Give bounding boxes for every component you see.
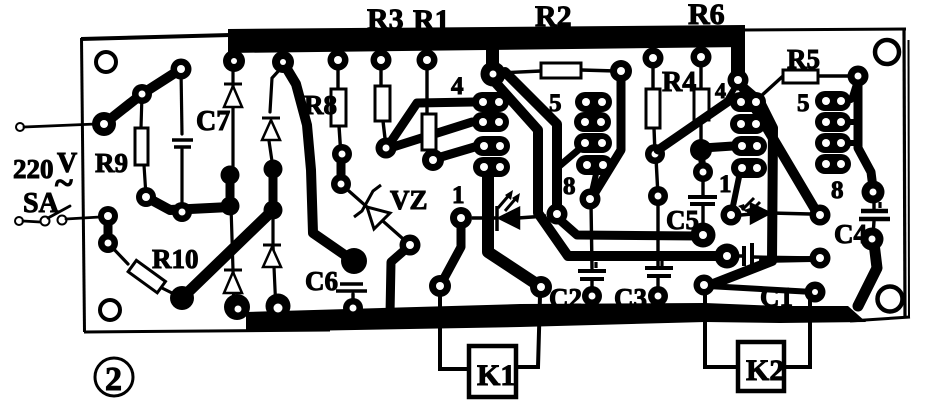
pad C5 top — [693, 162, 713, 182]
figure number circle — [95, 358, 133, 396]
pad AC1 — [92, 112, 116, 136]
wire lead R1 top — [425, 60, 428, 114]
pad R5 right — [848, 66, 869, 87]
pad top — [171, 59, 192, 80]
wire trace diagonal to R10 pad — [182, 210, 273, 298]
resistor R4 body — [646, 89, 660, 128]
mounting hole top-left — [96, 52, 116, 72]
svg-text:C6: C6 — [305, 266, 338, 296]
board outline right edge inner line — [908, 40, 911, 317]
pad C3 bottom — [648, 286, 668, 306]
svg-text:8: 8 — [831, 177, 844, 204]
pad K2 left — [694, 275, 715, 296]
LED2 arrows — [742, 198, 760, 214]
wire lead C6 bottom — [351, 294, 354, 306]
wire trace right IC row3 stub — [849, 140, 858, 146]
LED2 optocoupler symbol — [738, 198, 810, 226]
wire trace R6 blob to pad703 — [701, 151, 703, 171]
pad R8 top — [328, 50, 349, 71]
pad mid — [132, 84, 152, 104]
wire lead R6 bottom — [699, 120, 702, 148]
pad R8 bottom lower — [331, 174, 351, 194]
resistor R1 body — [422, 114, 436, 150]
wire trace R8 pads vertical — [337, 156, 346, 184]
wire lead R5 left — [760, 76, 783, 97]
wire SA to board — [66, 217, 100, 219]
board outline left edge — [82, 38, 85, 332]
wire trace R1 pad to row3 — [434, 146, 478, 159]
wire lead pad181 to C7cap — [181, 69, 182, 134]
diode D3 col1 lower — [224, 269, 242, 272]
wire lead C4 top — [872, 197, 875, 209]
pad pin8 left IC — [580, 189, 601, 210]
wire trace zener pad to C6 vertical — [390, 248, 407, 314]
pad R1 top — [417, 50, 438, 71]
resistor R9 body — [135, 128, 148, 165]
wire trace right IC pin4 stub — [728, 84, 737, 99]
svg-text:R5: R5 — [787, 44, 820, 74]
svg-text:R2: R2 — [535, 0, 572, 33]
wire trace C4 bottom to band — [858, 243, 877, 306]
wire trace SA pads vertical — [104, 216, 113, 243]
pad SA2 — [98, 233, 118, 253]
pad SA1 — [98, 206, 118, 226]
wire trace AC1 pad to top — [104, 69, 181, 124]
capacitor C3 plates — [645, 266, 673, 270]
svg-text:4: 4 — [715, 78, 726, 103]
resistor R3 body — [375, 86, 390, 121]
svg-text:R4: R4 — [662, 67, 696, 98]
capacitor C4 plates — [861, 209, 888, 214]
wire K2 lead right — [786, 300, 810, 367]
pad C3 top — [648, 186, 668, 206]
pad R2 left — [481, 62, 506, 87]
IC2 right column pin ovals — [815, 91, 851, 174]
wire lead C1 left — [733, 254, 742, 257]
terminal circle AC top — [16, 123, 24, 131]
capacitor C5 plates — [688, 195, 717, 199]
resistor R5 body — [783, 70, 818, 83]
LED1 cathode bar — [495, 206, 499, 231]
wire lead R3 top — [379, 60, 382, 86]
LED1 arrows — [498, 194, 517, 211]
svg-text:R1: R1 — [413, 4, 450, 37]
pad C6 blob — [341, 248, 367, 274]
wire lead R4 top — [651, 58, 654, 89]
svg-text:C1: C1 — [760, 282, 793, 312]
pad R4 mid — [645, 144, 665, 164]
pad LED2 left — [721, 205, 742, 226]
pad C6 bottom — [343, 298, 363, 318]
resistor R8 body — [331, 89, 346, 126]
mounting hole bottom-right — [878, 287, 903, 312]
board outline right edge — [904, 29, 905, 318]
pad R2 right — [610, 60, 632, 82]
wire lead C2 vertical — [591, 203, 592, 268]
mounting hole top-right — [875, 40, 899, 64]
board outline top edge right segment — [742, 29, 906, 30]
svg-text:220: 220 — [13, 154, 54, 184]
wire lead C1 right — [753, 257, 815, 258]
svg-text:8: 8 — [563, 173, 576, 200]
pad LED1 left — [450, 207, 472, 229]
LED1 triangle — [499, 208, 519, 228]
svg-text:K2: K2 — [746, 354, 784, 387]
pad C4 bottom — [861, 228, 884, 251]
pad diode col1 lower — [221, 197, 240, 216]
switch SA pivot circle — [41, 217, 50, 226]
svg-text:R8: R8 — [304, 90, 337, 120]
pad R3 top — [371, 50, 392, 71]
LED1 optocoupler symbol — [472, 190, 546, 231]
pad band 234 — [223, 50, 245, 72]
wire lead diode2 chain bottom — [273, 210, 276, 311]
pad LED2 right — [810, 205, 831, 226]
svg-text:R9: R9 — [95, 148, 128, 178]
wire trace pad621 down diagonal to pad590 — [594, 79, 621, 194]
svg-text:5: 5 — [549, 90, 562, 117]
svg-text:2: 2 — [105, 361, 122, 398]
svg-text:C3: C3 — [614, 283, 647, 313]
zener VZ lead — [341, 184, 410, 245]
wire trace twin diagonal A from pad493 — [495, 82, 724, 256]
wire trace R9-bottom to diode column — [146, 197, 230, 210]
wire trace horizontal to pad820 bottom — [762, 259, 812, 260]
resistor R10 body — [128, 260, 165, 292]
wire trace band corner to vertical 771 — [708, 84, 773, 286]
wire lead C7cap to pad182 — [180, 149, 183, 210]
wire lead R4pads vertical — [656, 158, 658, 196]
switch SA terminal circle right — [58, 216, 67, 225]
neck band corner pad — [731, 40, 745, 76]
wire K1 lead right — [518, 296, 540, 367]
wire AC input top — [24, 124, 96, 127]
pad K2 right — [805, 282, 826, 303]
capacitor C3 plus tick — [660, 259, 663, 266]
wire trace row4 stub to pad590 — [591, 174, 596, 196]
wire trace row3 to vertical — [557, 146, 583, 168]
svg-text:1: 1 — [719, 171, 732, 198]
wire lead diode1 chain — [231, 70, 234, 175]
wire K2 lead left — [705, 294, 736, 367]
switch SA terminal circle left — [15, 217, 23, 225]
wire lead R2 left — [498, 71, 541, 73]
wire lead R4 bottom — [654, 128, 655, 154]
svg-text:R6: R6 — [688, 0, 725, 31]
wire lead R9 top — [141, 94, 142, 128]
pad C5 bottom — [691, 223, 716, 248]
bottom ground trace band — [246, 303, 866, 332]
wire trace R1 row2 horizontal — [390, 122, 472, 148]
LED2 triangle — [751, 204, 770, 223]
pad K1 left — [429, 275, 451, 297]
neck R2 left pad — [486, 46, 499, 68]
pad R9 bottom — [136, 187, 156, 207]
wire lead R8 bottom — [339, 126, 341, 156]
board outline bottom edge left segment — [84, 330, 330, 332]
wire lead C3 bottom — [656, 278, 659, 295]
pad VZ bottom — [400, 235, 421, 256]
mounting hole bottom-left — [100, 300, 120, 320]
top ground trace band — [228, 25, 745, 53]
wire lead C4 bottom — [873, 221, 874, 236]
svg-text:VZ: VZ — [390, 185, 428, 215]
relay K2 box — [738, 342, 784, 391]
wire trace pin1 vertical to K1 right pad — [488, 176, 538, 285]
wire lead R9 bottom — [144, 165, 146, 196]
wire trace R3 bottom diagonal to pin4 — [388, 102, 474, 146]
pad R8 bottom upper — [332, 144, 352, 164]
wire lead R6 top — [699, 57, 702, 89]
svg-text:5: 5 — [797, 90, 810, 117]
pad R3 bottom — [376, 138, 397, 159]
pad LED1 right — [547, 204, 568, 225]
resistor R6 body — [694, 89, 709, 120]
pad R6 top — [691, 47, 712, 68]
board outline top edge left segment — [81, 35, 230, 39]
resistor R2 body — [541, 63, 581, 78]
capacitor C4 plus tick — [878, 202, 881, 208]
wire trace pad655 to IC2 pin4 overlay — [658, 101, 729, 150]
wire trace blob to right IC row3 — [703, 146, 733, 148]
pad band corner — [728, 70, 749, 91]
pad diode col1 bottom — [224, 294, 250, 320]
pad K1 right — [530, 276, 552, 298]
wire lead R1 bottom — [430, 150, 432, 159]
pad C4 top — [862, 181, 885, 204]
pad diode col2 bottom — [266, 294, 291, 319]
diode D2 col2 upper — [262, 117, 280, 120]
capacitor near R9 plates — [172, 138, 193, 142]
pad band 283 — [272, 51, 294, 73]
IC1 left column pin ovals — [472, 92, 510, 177]
wire lead C5 top — [701, 175, 704, 195]
wire lead R2 right — [581, 70, 616, 71]
wire trace right IC row2 stub — [849, 119, 858, 125]
pad cap bottom — [172, 202, 192, 222]
wire trace right IC row4 to LED pad — [733, 177, 739, 206]
svg-text:K1: K1 — [477, 359, 515, 392]
wire lead C2 bottom — [590, 280, 593, 295]
wire trace bus1 from LED pad — [560, 220, 700, 236]
wire trace diode column2 pads — [269, 169, 278, 210]
pad R6 blob — [690, 139, 712, 161]
wire K1 lead left — [440, 296, 467, 369]
diode D1 col1 upper — [224, 83, 242, 86]
pad C2 bottom — [582, 286, 602, 306]
relay K1 box — [469, 346, 516, 397]
LED2 cathode bar — [768, 202, 772, 226]
svg-text:SA: SA — [23, 188, 60, 219]
svg-text:C7: C7 — [196, 106, 230, 137]
svg-text:1: 1 — [452, 182, 465, 209]
wire lead R10 top — [108, 243, 128, 264]
IC1 right column pin ovals — [574, 92, 613, 175]
wire lead diode2 mid — [268, 134, 273, 168]
pad R10 blob — [170, 286, 194, 310]
svg-text:R3: R3 — [367, 3, 404, 36]
pad diode col1 upper — [221, 166, 240, 185]
svg-text:4: 4 — [451, 73, 464, 100]
pad C1 right — [810, 248, 831, 269]
wire trace K2 pads link — [708, 286, 813, 292]
capacitor C1 plates — [742, 246, 746, 266]
diode D4 col2 lower — [263, 244, 281, 247]
IC2 left column pin ovals — [730, 92, 767, 178]
wire trace from top pad 283 down to C6 blob — [284, 64, 352, 260]
svg-text:C5: C5 — [666, 205, 699, 235]
wire trace diode column1 pads — [226, 175, 235, 206]
pad C1 left — [715, 244, 740, 269]
capacitor C6 plates — [340, 282, 363, 286]
svg-text:C2: C2 — [549, 283, 582, 313]
pad R1 bottom — [422, 149, 444, 171]
switch SA arm — [48, 206, 70, 218]
zener diode VZ symbol — [354, 185, 390, 229]
capacitor C2 plus tick — [594, 262, 597, 268]
svg-text:C4: C4 — [834, 219, 867, 249]
pad diode col2 upper — [264, 160, 283, 179]
wire lead C5 bottom — [701, 206, 704, 231]
wire trace right IC row1 stub — [851, 84, 856, 100]
svg-text:R10: R10 — [152, 244, 199, 274]
wire lead R3 bottom — [383, 121, 386, 147]
wire lead R8 top — [336, 60, 339, 89]
wire lead diode1 chain bottom — [231, 206, 234, 311]
board outline bottom edge right segment — [850, 317, 910, 321]
pad R4 top — [643, 48, 664, 69]
wire trace pad461 down to K1 left pad — [441, 227, 461, 284]
wire trace big diagonal to pad820 — [742, 86, 816, 211]
wire lead diode2 chain — [270, 66, 283, 112]
wire trace R5 right pad down right side — [858, 83, 873, 188]
wire trace twin diagonal B from pad493 — [505, 72, 557, 208]
wire lead R10 bottom — [162, 288, 182, 298]
wire lead C3 vertical — [656, 199, 659, 266]
wire SA left — [23, 221, 40, 222]
wire lead R5 right — [818, 74, 850, 77]
pad diode col2 lower — [264, 201, 283, 220]
capacitor C2 plates — [578, 269, 606, 273]
